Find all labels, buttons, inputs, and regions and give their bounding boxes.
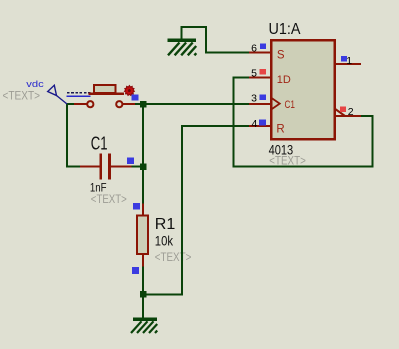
marker square R1 top	[133, 203, 140, 209]
vdc probe tail	[57, 96, 68, 105]
pin 6 lead (S)	[249, 51, 271, 53]
svg-text:3: 3	[251, 93, 257, 105]
marker square R1 bottom	[132, 267, 139, 274]
pin 5 lead (1D)	[249, 76, 271, 78]
ground (top)	[168, 39, 197, 56]
pin 1 lead (Q)	[335, 63, 361, 65]
resistor R1 top lead	[142, 204, 144, 217]
svg-text:6: 6	[251, 43, 257, 55]
wire: C1 right lead to node A vertical	[132, 165, 144, 167]
wire: node A row - switch right terminal to clock pin 3	[135, 103, 249, 105]
capacitor C1 left lead	[80, 165, 100, 167]
svg-text:R1: R1	[155, 216, 176, 233]
wire: node A vertical down to R1 top	[142, 104, 144, 204]
svg-text:C1: C1	[91, 134, 108, 154]
svg-text:R: R	[276, 124, 284, 136]
switch right terminal circle	[116, 101, 122, 107]
vdc probe triangle	[48, 85, 57, 95]
svg-text:5: 5	[251, 68, 257, 80]
junction C1 right lead	[140, 163, 147, 170]
capacitor C1 right lead	[111, 165, 132, 167]
wire: R1 bottom to ground and to pin 4 (R) riser	[143, 126, 249, 318]
marker square pin 5	[260, 69, 267, 75]
wire: top ground to pin 6 (S)	[182, 27, 250, 53]
svg-text:10k: 10k	[155, 234, 173, 249]
capacitor C1 right plate	[108, 154, 111, 180]
wire: Q-bar (pin 2) feedback to 1D (pin 5)	[234, 78, 373, 167]
vdc level line solid	[67, 95, 91, 97]
svg-text:S: S	[277, 49, 285, 61]
ground (bottom)	[131, 318, 157, 334]
svg-text:<TEXT>: <TEXT>	[91, 192, 127, 206]
marker square pin 1	[341, 56, 347, 62]
switch marker square	[132, 95, 139, 101]
svg-text:C1: C1	[285, 99, 296, 111]
marker square C1	[127, 157, 134, 164]
svg-text:U1:A: U1:A	[269, 21, 301, 38]
resistor R1 bottom lead	[142, 253, 144, 267]
junction R1 bottom	[140, 291, 147, 298]
svg-text:<TEXT>: <TEXT>	[269, 154, 306, 168]
wire: vdc/switch-left down to C1 left plate	[67, 104, 80, 167]
pin 4 lead (R)	[249, 125, 271, 127]
svg-text:1: 1	[346, 55, 352, 67]
svg-text:<TEXT>: <TEXT>	[155, 250, 192, 264]
switch bar	[89, 93, 125, 95]
switch right stub	[123, 103, 135, 105]
marker square pin 6	[260, 44, 266, 50]
switch left terminal circle	[87, 101, 93, 107]
op-amp/flip-flop U1 body	[271, 40, 335, 139]
resistor R1 body	[137, 216, 148, 255]
marker square pin 4	[259, 119, 266, 125]
marker square pin 3	[260, 94, 267, 100]
svg-text:1D: 1D	[277, 74, 291, 86]
svg-text:<TEXT>: <TEXT>	[3, 89, 41, 103]
capacitor C1 left plate	[99, 154, 102, 180]
pin 2 lead (Q-bar) with diagonal stub	[335, 115, 361, 117]
junction node A (switch/clock/vertical)	[140, 101, 147, 108]
switch button cap	[94, 85, 116, 93]
pin 3 lead (C1 clock)	[249, 103, 271, 105]
switch actuator star	[124, 86, 134, 96]
clock chevron on pin C1	[271, 98, 280, 110]
svg-text:2: 2	[348, 106, 354, 118]
marker square pin 2	[340, 107, 346, 112]
switch left stub	[74, 103, 87, 105]
vdc level line dashed	[67, 92, 91, 94]
svg-text:4: 4	[251, 118, 257, 130]
